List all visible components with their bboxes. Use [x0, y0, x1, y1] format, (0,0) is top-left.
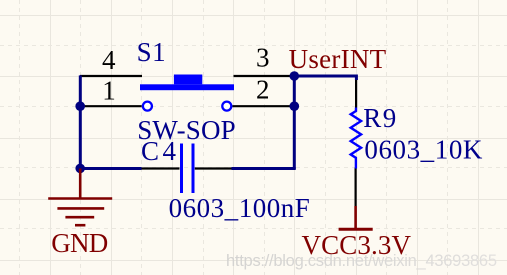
svg-text:4: 4 [102, 45, 116, 75]
svg-text:UserINT: UserINT [289, 44, 387, 74]
svg-text:3: 3 [256, 43, 270, 73]
svg-text:VCC3.3V: VCC3.3V [302, 230, 412, 260]
svg-text:R9: R9 [363, 103, 396, 133]
svg-text:S1: S1 [137, 37, 166, 67]
svg-text:1: 1 [102, 75, 116, 105]
svg-text:0603_10K: 0603_10K [364, 134, 483, 164]
svg-text:C4: C4 [141, 136, 177, 166]
svg-text:GND: GND [51, 228, 108, 258]
svg-text:2: 2 [256, 75, 270, 105]
svg-text:0603_100nF: 0603_100nF [169, 193, 310, 223]
